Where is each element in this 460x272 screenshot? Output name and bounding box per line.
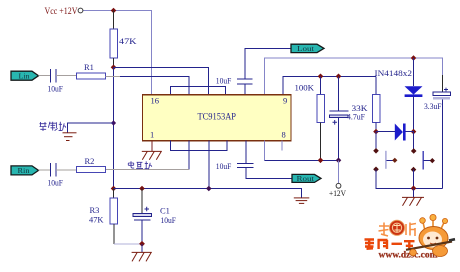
capacitor 10uF (pin 6 output coupling) bbox=[237, 141, 292, 179]
label 10uF (top middle) bbox=[216, 76, 232, 86]
resistor 47K (top) bbox=[110, 29, 118, 58]
switch SW2 (pushbutton) bbox=[411, 148, 435, 172]
resistor R3 bbox=[110, 189, 117, 244]
switch SW1 (pushbutton) bbox=[373, 148, 397, 172]
label 33K bbox=[352, 103, 369, 113]
svg-text:IN4148x2: IN4148x2 bbox=[375, 68, 413, 78]
ground audio (earth bars) bbox=[63, 133, 77, 141]
terminal Vcc circle bbox=[78, 8, 83, 13]
svg-text:Rout: Rout bbox=[297, 174, 316, 183]
resistor R1 bbox=[76, 73, 105, 79]
wire cap to Lout bbox=[245, 48, 291, 79]
label 10uF (C1) bbox=[161, 215, 177, 225]
resistor 33K bbox=[372, 76, 380, 131]
svg-text:10uF: 10uF bbox=[48, 84, 64, 94]
pin 9 label bbox=[283, 96, 287, 106]
label 10uF (Lin) bbox=[48, 84, 64, 94]
svg-text:10uF: 10uF bbox=[216, 76, 232, 86]
ground earth (Rout area) bbox=[294, 198, 310, 204]
svg-text:10uF: 10uF bbox=[216, 161, 232, 171]
wire pin 7 to +12V rail bbox=[265, 141, 341, 161]
junction D2 cathode / D1 bbox=[411, 129, 417, 135]
label 47K bbox=[119, 36, 138, 46]
wire bus pin15 to pin12 bbox=[171, 87, 226, 96]
capacitor 10uF (Lin coupling) bbox=[51, 69, 57, 83]
label R3 bbox=[90, 205, 100, 215]
pin 16 label bbox=[151, 96, 160, 106]
wire bus pin2 to pin5 bbox=[171, 141, 228, 151]
port Lout bbox=[291, 44, 324, 53]
svg-text:1: 1 bbox=[150, 130, 154, 140]
label 10uF (Rin) bbox=[48, 178, 64, 188]
wire pin 10 rail to right column bbox=[265, 58, 443, 95]
port Lin bbox=[11, 71, 39, 80]
capacitor 10uF (pin 11 output coupling) bbox=[237, 79, 253, 84]
wire node to pin 13 bbox=[114, 67, 209, 95]
svg-text:TC9153AP: TC9153AP bbox=[198, 112, 237, 122]
svg-text:Lout: Lout bbox=[297, 44, 315, 53]
svg-text:47K: 47K bbox=[119, 36, 138, 46]
wire audio ground branch bbox=[68, 123, 114, 133]
svg-text:www.dzsc.com: www.dzsc.com bbox=[379, 250, 438, 260]
junction R2/47K net to rail bbox=[111, 186, 117, 192]
diode D2 (horizontal, IN4148) bbox=[376, 124, 414, 141]
junction 4.7uF top bbox=[336, 74, 342, 80]
junction C1 top bbox=[139, 186, 145, 192]
resistor R2 bbox=[76, 166, 105, 172]
wire pin 1 to ground bbox=[151, 141, 153, 152]
svg-text:10uF: 10uF bbox=[48, 178, 64, 188]
wire +12V terminal lead bbox=[338, 160, 340, 183]
svg-text:9: 9 bbox=[283, 96, 287, 106]
wire pin 8 stub bbox=[281, 141, 283, 151]
label TC9153AP bbox=[198, 112, 237, 122]
wire vertical net 47K/R3 bbox=[113, 67, 115, 188]
wire R1 lead out bbox=[106, 76, 120, 78]
svg-text:Vcc +12V: Vcc +12V bbox=[45, 6, 78, 16]
svg-text:C1: C1 bbox=[160, 206, 170, 216]
wire cap to pin 11 bbox=[244, 84, 246, 95]
wire R3 bottom to C1 bottom bbox=[114, 243, 142, 245]
wire cap to R1 bbox=[56, 75, 76, 77]
svg-text:8: 8 bbox=[282, 130, 286, 140]
diode D1 (vertical, IN4148) bbox=[405, 58, 423, 132]
svg-text:4.7uF: 4.7uF bbox=[347, 112, 365, 122]
svg-text:R1: R1 bbox=[84, 62, 94, 72]
wire SW2 top lead bbox=[413, 132, 415, 151]
svg-text:100K: 100K bbox=[295, 83, 315, 93]
wire Vcc rail to pin 16 bbox=[83, 11, 152, 96]
op-amp U1 TC9153AP body bbox=[143, 95, 292, 141]
pin 1 label bbox=[150, 130, 154, 140]
wire pin 4 to ground rail bbox=[208, 141, 210, 189]
wire R1 to pin 14 bbox=[120, 77, 189, 96]
label 47K (R3) bbox=[89, 215, 104, 225]
wire pin 3 to R2 bbox=[106, 141, 189, 170]
junction at Vcc / 47K top bbox=[111, 8, 117, 14]
wire ground stub (C1) bbox=[141, 244, 143, 253]
junction D2 anode / 33K bottom bbox=[373, 129, 379, 135]
junction R3/C1 ground node bbox=[139, 241, 145, 247]
ground chassis (bottom right) bbox=[402, 197, 424, 205]
svg-text:47K: 47K bbox=[89, 215, 104, 225]
svg-text:+12V: +12V bbox=[329, 188, 347, 198]
label R1 bbox=[84, 62, 94, 72]
label +12V bbox=[329, 188, 347, 198]
label 4.7uF bbox=[347, 112, 365, 122]
resistor 100K bbox=[317, 76, 325, 160]
label 10uF (bottom middle) bbox=[216, 161, 232, 171]
ground chassis (R3/C1) bbox=[132, 252, 152, 261]
capacitor 4.7uF bbox=[330, 76, 349, 160]
junction diode D1 top bbox=[411, 55, 417, 61]
watermark logo dzsc bbox=[365, 214, 456, 260]
label C1 bbox=[160, 206, 170, 216]
junction 100K bottom on +12V rail bbox=[318, 158, 324, 164]
wire pin 9 rail bbox=[283, 76, 376, 95]
label R2 bbox=[85, 156, 95, 166]
wire Rin to cap bbox=[39, 169, 51, 171]
junction bottom rail / ground bbox=[411, 186, 417, 192]
wire ground stub bbox=[413, 188, 415, 197]
label 100K bbox=[295, 83, 315, 93]
ground chassis (pin 1) bbox=[142, 151, 162, 159]
pin 8 label bbox=[282, 130, 286, 140]
junction pin 4 on rail bbox=[206, 186, 212, 192]
junction 100K top bbox=[318, 74, 324, 80]
svg-text:R2: R2 bbox=[85, 156, 95, 166]
capacitor 3.3uF bbox=[433, 75, 451, 188]
svg-text:Rin: Rin bbox=[18, 166, 30, 175]
port Rin bbox=[11, 166, 39, 175]
svg-text:10uF: 10uF bbox=[161, 215, 177, 225]
svg-text:R3: R3 bbox=[90, 205, 100, 215]
wire cap to R2 bbox=[56, 169, 76, 171]
wire Lin to cap bbox=[39, 75, 51, 77]
terminal +12V circle bbox=[336, 183, 341, 188]
capacitor C1 10uF bbox=[133, 189, 152, 244]
wire SW2 bottom to rail bbox=[413, 170, 415, 189]
svg-text:16: 16 bbox=[151, 96, 160, 106]
label IN4148x2 bbox=[375, 68, 413, 78]
wire 47K top lead bbox=[113, 11, 115, 30]
port Rout bbox=[292, 174, 321, 183]
label 3.3uF bbox=[424, 101, 442, 111]
wire SW1 top lead bbox=[375, 132, 377, 151]
junction +12V terminal tap bbox=[336, 158, 342, 164]
wire ground rail bbox=[114, 189, 302, 198]
label Vcc +12V bbox=[45, 6, 78, 16]
svg-text:Lin: Lin bbox=[19, 72, 30, 81]
label 音频地 (audio ground) bbox=[40, 122, 66, 131]
label 电源地 (power ground) bbox=[128, 161, 152, 169]
capacitor 10uF (Rin coupling) bbox=[51, 163, 57, 177]
svg-text:3.3uF: 3.3uF bbox=[424, 101, 442, 111]
wire SW1 bottom to rail bbox=[376, 169, 443, 188]
junction 47K bottom node bbox=[111, 65, 117, 71]
junction audio ground tap bbox=[111, 120, 116, 125]
wire 47K bottom lead bbox=[113, 58, 115, 67]
